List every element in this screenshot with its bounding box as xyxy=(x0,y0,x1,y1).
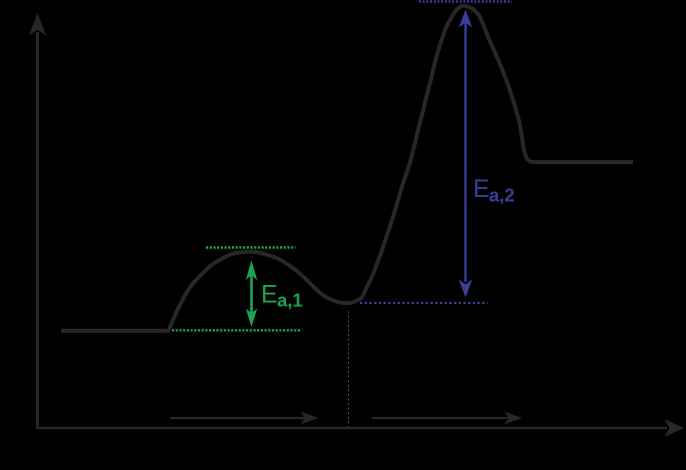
green double arrow Ea1 xyxy=(246,260,257,327)
svg-text:E: E xyxy=(473,175,490,203)
energy curve xyxy=(61,6,633,331)
step-1 progress arrow xyxy=(170,412,319,425)
svg-text:E: E xyxy=(261,281,278,309)
green dotted line at first transition state level xyxy=(206,246,296,248)
blue dotted line at second transition state level xyxy=(419,0,512,3)
svg-text:a,2: a,2 xyxy=(489,185,515,206)
blue dotted line at intermediate level xyxy=(360,302,488,304)
y-axis (energy axis) xyxy=(29,13,46,429)
blue double arrow Ea2 xyxy=(459,10,472,298)
dashed vertical divider at valley xyxy=(348,311,350,427)
step-2 progress arrow xyxy=(372,412,523,425)
svg-text:a,1: a,1 xyxy=(277,290,303,311)
green dotted line at reactant level xyxy=(172,329,301,331)
x-axis (reaction progress axis) xyxy=(36,419,684,437)
